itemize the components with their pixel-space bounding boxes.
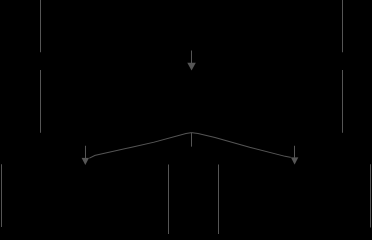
arrowhead right-branch: [291, 157, 298, 164]
wire right-mid vertical: [342, 70, 344, 133]
wire left-top vertical: [40, 0, 42, 52]
wire bottom far-left vertical: [1, 164, 3, 227]
wire apex right diagonal: [192, 133, 291, 158]
wire right-branch arrow shaft: [294, 146, 296, 158]
wire apex left diagonal: [89, 133, 191, 159]
wire bottom mid-right vertical: [218, 165, 220, 235]
wire right-top vertical: [342, 0, 344, 52]
wire center-top arrow shaft: [191, 51, 193, 64]
wire bottom mid-left vertical: [168, 165, 170, 235]
arrowhead center-top: [187, 63, 196, 71]
wire left-mid vertical: [40, 70, 42, 133]
arrowhead left-branch: [82, 158, 89, 165]
wire bottom far-right vertical: [370, 164, 372, 227]
wire apex center stub: [191, 133, 193, 147]
wire left-branch arrow shaft: [85, 146, 87, 158]
